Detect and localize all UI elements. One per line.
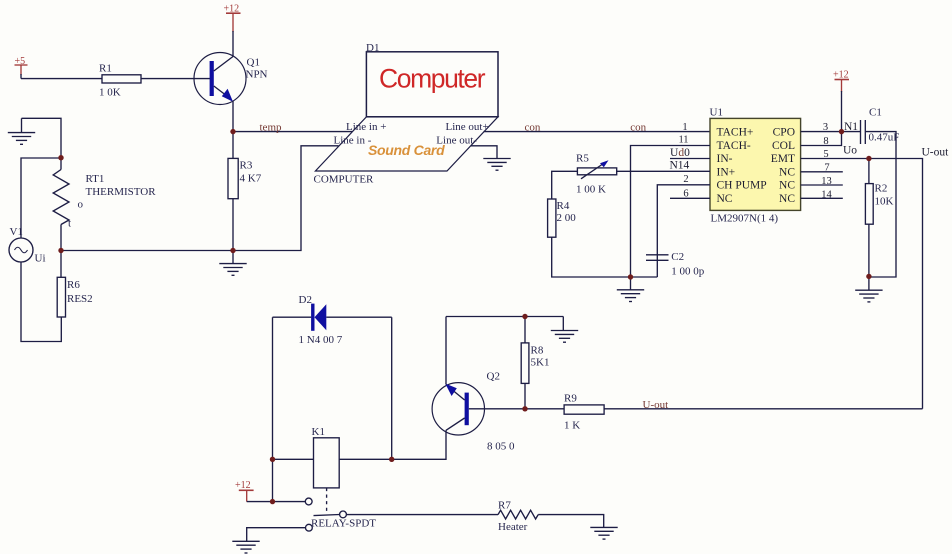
wire rail to R8 bbox=[524, 317, 526, 343]
wire +12 to relay pole bbox=[247, 501, 306, 503]
svg-text:D1: D1 bbox=[366, 42, 379, 54]
ground (Q2 emitter rail) bbox=[551, 317, 578, 343]
wire NC contact to ground bbox=[247, 528, 306, 542]
svg-text:LM2907N(1 4): LM2907N(1 4) bbox=[711, 213, 779, 225]
svg-text:11: 11 bbox=[678, 134, 688, 145]
resistor R2 bbox=[865, 184, 873, 225]
wire D2 left leg down bbox=[272, 317, 274, 501]
wire +5 to R1 bbox=[21, 78, 102, 80]
svg-text:C2: C2 bbox=[671, 251, 684, 263]
svg-text:7: 7 bbox=[824, 163, 829, 174]
svg-text:RT1: RT1 bbox=[86, 173, 105, 185]
wire D2 right leg down bbox=[391, 317, 393, 459]
sound card parallelogram bbox=[315, 117, 498, 171]
node temp junction bbox=[230, 129, 235, 134]
svg-text:8 05 0: 8 05 0 bbox=[487, 441, 515, 453]
svg-text:Computer: Computer bbox=[379, 64, 486, 94]
svg-text:4 K7: 4 K7 bbox=[240, 173, 262, 185]
svg-text:o: o bbox=[78, 199, 84, 211]
power +12 (Q1 collector) bbox=[226, 13, 241, 32]
svg-text:IN-: IN- bbox=[717, 153, 733, 165]
ground (heater) bbox=[590, 527, 617, 539]
svg-text:TACH+: TACH+ bbox=[717, 127, 754, 139]
node D2 right / base wire junction bbox=[389, 457, 394, 462]
wire R1 to Q1 base bbox=[141, 78, 210, 80]
wire pin 5 EMT to U-out (net Uo) bbox=[801, 159, 923, 409]
svg-text:U1: U1 bbox=[710, 107, 723, 119]
diode D2 bbox=[311, 304, 326, 331]
node Uo junction bbox=[866, 156, 871, 161]
svg-text:8: 8 bbox=[823, 136, 828, 147]
svg-text:Heater: Heater bbox=[498, 521, 528, 533]
wire Uo node to R2 bbox=[868, 159, 870, 184]
svg-text:D2: D2 bbox=[299, 294, 312, 306]
svg-text:R5: R5 bbox=[576, 153, 589, 165]
ground (C2 / pin11 rail) bbox=[617, 277, 644, 302]
resistor R8 bbox=[521, 343, 529, 384]
wire pin 8 COL up to node N1 bbox=[801, 132, 842, 146]
node B junction bbox=[58, 248, 63, 253]
transistor Q1 bbox=[194, 53, 246, 105]
wire Q2 base to node bbox=[469, 408, 524, 410]
svg-text:2 00: 2 00 bbox=[557, 212, 577, 224]
wire R3 to mid rail bbox=[232, 199, 234, 251]
node R8 top junction bbox=[522, 314, 527, 319]
svg-text:RES2: RES2 bbox=[67, 293, 93, 305]
wire D2 top rail bbox=[273, 316, 312, 318]
svg-text:K1: K1 bbox=[312, 426, 325, 438]
svg-text:R2: R2 bbox=[875, 182, 888, 194]
svg-text:V1: V1 bbox=[10, 226, 23, 238]
svg-text:13: 13 bbox=[821, 176, 832, 187]
resistor R7 heater zigzag bbox=[498, 510, 538, 519]
capacitor C1 bbox=[861, 120, 866, 144]
wire pin 11 TACH- to ground rail bbox=[631, 146, 711, 278]
node Q2 base junction bbox=[522, 406, 527, 411]
svg-text:1 00 K: 1 00 K bbox=[576, 184, 606, 196]
svg-text:con: con bbox=[630, 121, 646, 133]
svg-text:1: 1 bbox=[682, 122, 687, 133]
node N1 junction bbox=[839, 129, 844, 134]
node A junction bbox=[58, 155, 63, 160]
wire V1 bottom loop to R6 bbox=[21, 262, 61, 342]
node D2 left / K1 junction bbox=[270, 457, 275, 462]
svg-text:U-out: U-out bbox=[643, 399, 669, 411]
svg-text:NPN: NPN bbox=[246, 69, 268, 81]
wire +12 down to N1 bbox=[841, 91, 843, 132]
svg-text:Ud0: Ud0 bbox=[670, 147, 690, 159]
wire pin 14 NC stub bbox=[801, 197, 843, 199]
capacitor C2 bbox=[646, 255, 669, 277]
resistor R6 bbox=[57, 277, 65, 317]
potentiometer R5 bbox=[577, 160, 616, 179]
svg-text:+12: +12 bbox=[224, 4, 240, 15]
wire pin 2 CH PUMP to C2 bbox=[657, 185, 710, 260]
relay throw contact circle bbox=[340, 511, 347, 518]
wire +12 to Q1 bbox=[232, 31, 234, 57]
svg-text:NC: NC bbox=[779, 193, 795, 205]
svg-text:NC: NC bbox=[779, 180, 795, 192]
source V1 bbox=[9, 238, 33, 262]
svg-text:R8: R8 bbox=[531, 345, 544, 357]
svg-text:R9: R9 bbox=[564, 393, 577, 405]
relay contact arm bbox=[314, 515, 340, 516]
svg-text:NC: NC bbox=[717, 193, 733, 205]
wire C1 right to ground rail bbox=[865, 132, 896, 277]
svg-text:NC: NC bbox=[779, 166, 795, 178]
ground (top left) bbox=[8, 118, 35, 144]
node R3 bottom junction bbox=[230, 248, 235, 253]
relay dashed actuator line bbox=[326, 488, 328, 512]
relay NC contact circle bbox=[306, 524, 313, 531]
wire Q1 emitter down to temp node bbox=[232, 101, 234, 132]
svg-text:1 K: 1 K bbox=[564, 420, 580, 432]
svg-text:IN+: IN+ bbox=[717, 166, 736, 178]
wire mid rail (node B to Line in -) bbox=[61, 146, 339, 251]
svg-text:5K1: 5K1 bbox=[531, 357, 550, 369]
svg-text:RELAY-SPDT: RELAY-SPDT bbox=[311, 518, 376, 530]
wire pin 13 NC stub bbox=[801, 184, 843, 186]
svg-text:N1: N1 bbox=[844, 121, 858, 133]
ground (relay NC) bbox=[232, 541, 259, 553]
power +5 bbox=[15, 65, 28, 79]
svg-text:temp: temp bbox=[260, 122, 282, 134]
ground (below R2) bbox=[855, 277, 882, 302]
computer box D1 bbox=[366, 52, 498, 117]
svg-text:1 0K: 1 0K bbox=[99, 87, 121, 99]
power +12 (node N1) bbox=[835, 80, 850, 93]
svg-text:+5: +5 bbox=[15, 56, 26, 67]
wire R4 bottom to C2 bottom bbox=[552, 237, 658, 277]
svg-text:TACH-: TACH- bbox=[717, 140, 751, 152]
transistor Q2 bbox=[432, 383, 484, 435]
wire temp node to Line in + bbox=[233, 131, 353, 133]
power +12 lower bbox=[239, 490, 254, 501]
svg-text:Line in +: Line in + bbox=[346, 121, 386, 133]
relay contact pole circle bbox=[305, 498, 312, 505]
resistor R4 bbox=[548, 199, 556, 237]
wire Line out- to ground bbox=[471, 146, 497, 159]
svg-text:THERMISTOR: THERMISTOR bbox=[86, 186, 157, 198]
svg-text:COMPUTER: COMPUTER bbox=[314, 174, 375, 186]
node C2 ground junction bbox=[628, 274, 633, 279]
resistor R3 bbox=[228, 158, 238, 198]
node +12 relay junction bbox=[270, 499, 275, 504]
ground (sound card line out-) bbox=[483, 159, 510, 171]
svg-text:14: 14 bbox=[821, 190, 832, 201]
wire node B to R6 bbox=[60, 251, 62, 278]
svg-text:R7: R7 bbox=[498, 500, 511, 512]
svg-text:6: 6 bbox=[683, 188, 688, 199]
resistor R1 bbox=[102, 75, 141, 83]
ground (below R3) bbox=[219, 251, 246, 276]
svg-text:R4: R4 bbox=[557, 200, 570, 212]
svg-text:Line out+: Line out+ bbox=[446, 121, 489, 133]
wire pin 6 NC stub bbox=[670, 197, 710, 199]
wire R9 to U-out vertical bbox=[604, 408, 922, 410]
op-amp/IC U1 LM2907N body bbox=[710, 118, 801, 210]
svg-text:Line in -: Line in - bbox=[334, 134, 372, 146]
wire R8 to base node bbox=[524, 383, 526, 408]
wire K1 to Q2 collector bbox=[339, 430, 446, 459]
wire Q2 emitter up to rail bbox=[445, 317, 447, 385]
svg-text:con: con bbox=[525, 121, 541, 133]
svg-text:R6: R6 bbox=[67, 279, 80, 291]
wire temp node to R3 bbox=[232, 132, 234, 159]
wire R2 to ground bbox=[868, 224, 870, 277]
resistor R9 bbox=[564, 405, 604, 414]
wire pin IN+ from R5 (net N14) bbox=[617, 170, 710, 172]
svg-text:R1: R1 bbox=[99, 63, 112, 75]
svg-text:Q1: Q1 bbox=[247, 57, 260, 69]
svg-text:1 N4 00 7: 1 N4 00 7 bbox=[299, 334, 343, 346]
wire V1 plus to node A bbox=[21, 158, 61, 238]
svg-text:+12: +12 bbox=[833, 70, 849, 81]
wire Line out+ to pin 1 (con net) bbox=[484, 131, 711, 133]
thermistor RT1 bbox=[53, 158, 69, 251]
svg-text:CPO: CPO bbox=[773, 127, 795, 139]
svg-text:0.47uF: 0.47uF bbox=[869, 131, 900, 143]
svg-text:C1: C1 bbox=[869, 107, 882, 119]
wire ground to node A bbox=[22, 118, 62, 157]
wire emitter rail to ground bbox=[446, 316, 563, 318]
wire R5 left to R4 bbox=[552, 171, 578, 199]
svg-text:Uo: Uo bbox=[843, 144, 857, 156]
svg-text:t: t bbox=[68, 218, 71, 230]
svg-text:N14: N14 bbox=[670, 160, 690, 172]
svg-text:Ui: Ui bbox=[35, 253, 46, 265]
wire pin IN- stub (net Ud0) bbox=[670, 158, 710, 160]
svg-text:Q2: Q2 bbox=[487, 371, 500, 383]
wire base node to R9 bbox=[524, 408, 564, 410]
svg-text:COL: COL bbox=[772, 140, 795, 152]
wire R7 to ground bbox=[538, 515, 604, 528]
svg-text:3: 3 bbox=[823, 122, 828, 133]
svg-text:Sound Card: Sound Card bbox=[368, 142, 445, 158]
svg-text:EMT: EMT bbox=[771, 153, 795, 165]
node R2 ground junction bbox=[866, 274, 871, 279]
wire pin 7 NC stub bbox=[801, 171, 843, 173]
relay coil K1 bbox=[314, 438, 340, 488]
wire throw contact to R7 bbox=[346, 514, 498, 516]
svg-text:1 00 0p: 1 00 0p bbox=[671, 266, 705, 278]
svg-text:10K: 10K bbox=[875, 195, 894, 207]
svg-text:CH PUMP: CH PUMP bbox=[717, 180, 767, 192]
wire pin 3 CPO to node N1 bbox=[801, 131, 861, 133]
svg-text:U-out: U-out bbox=[922, 147, 950, 159]
wire to K1 coil bbox=[273, 458, 314, 460]
svg-text:5: 5 bbox=[823, 149, 828, 160]
svg-text:+12: +12 bbox=[235, 480, 251, 491]
svg-text:2: 2 bbox=[683, 174, 688, 185]
svg-text:R3: R3 bbox=[240, 160, 253, 172]
